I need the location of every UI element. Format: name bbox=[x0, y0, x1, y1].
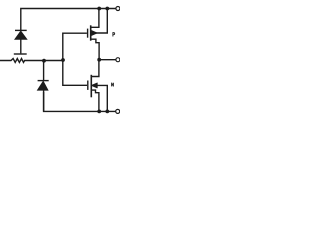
node C top rail dot source bbox=[97, 7, 101, 11]
node D top rail dot bulk bbox=[105, 7, 109, 11]
transistor Q1 P-channel MOSFET bbox=[88, 9, 108, 60]
diode D1 bbox=[14, 30, 27, 54]
wire gate bus up to P gate bbox=[63, 33, 87, 60]
node A input junction dot bbox=[61, 58, 65, 62]
transistor Q2 N-channel MOSFET bbox=[88, 60, 108, 112]
resistor R1 bbox=[0, 59, 63, 63]
label N bbox=[112, 83, 114, 87]
wire bottom rail GND bbox=[44, 92, 116, 111]
wire gate bus down to N gate bbox=[63, 60, 87, 85]
node E output junction dot bbox=[97, 58, 101, 62]
label P bbox=[113, 33, 115, 37]
node B diode D2 junction dot bbox=[42, 59, 46, 63]
node F bottom rail dot source bbox=[97, 110, 101, 114]
wire output bbox=[99, 59, 116, 61]
terminal GND pin bbox=[116, 109, 120, 113]
terminal output pin bbox=[116, 58, 120, 62]
terminal VCC pin bbox=[116, 7, 120, 11]
wire top rail VCC bbox=[21, 9, 116, 31]
node G bottom rail dot bulk bbox=[105, 110, 109, 114]
diode D2 bbox=[37, 61, 48, 112]
